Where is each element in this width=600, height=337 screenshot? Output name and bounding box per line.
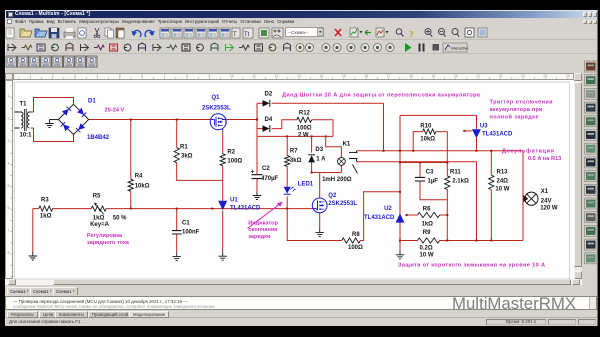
svg-text:24Ω: 24Ω [497, 179, 509, 185]
svg-text:100nF: 100nF [182, 230, 200, 236]
svg-text:D2: D2 [265, 92, 273, 98]
svg-text:R2: R2 [227, 150, 235, 156]
svg-text:10 W: 10 W [495, 187, 509, 193]
svg-text:U3: U3 [480, 124, 488, 130]
svg-text:R9: R9 [423, 230, 431, 236]
svg-text:10kΩ: 10kΩ [135, 184, 150, 190]
svg-text:TL431ACD: TL431ACD [230, 205, 261, 211]
svg-text:100Ω: 100Ω [297, 125, 312, 131]
svg-text:10kΩ: 10kΩ [420, 137, 435, 143]
svg-text:TL431ACD: TL431ACD [482, 131, 513, 137]
svg-text:LED1: LED1 [298, 181, 314, 187]
svg-text:K1: K1 [343, 141, 351, 147]
svg-text:Триггер отключения: Триггер отключения [490, 100, 553, 106]
svg-text:1kΩ: 1kΩ [422, 222, 434, 228]
svg-text:R10: R10 [420, 123, 432, 129]
svg-text:R12: R12 [299, 111, 311, 117]
svg-text:D4: D4 [265, 117, 273, 123]
svg-text:C1: C1 [182, 221, 190, 227]
svg-text:Key=A: Key=A [90, 222, 110, 228]
svg-text:Регулировка: Регулировка [87, 233, 123, 239]
svg-text:1kΩ: 1kΩ [40, 213, 52, 219]
svg-text:3kΩ: 3kΩ [181, 154, 193, 160]
svg-text:Индикатор: Индикатор [248, 220, 278, 226]
svg-text:470µF: 470µF [261, 176, 278, 182]
svg-text:X1: X1 [541, 189, 549, 195]
svg-text:Защита от короткого замыкания: Защита от короткого замыкания на уровне … [398, 263, 545, 269]
svg-text:R13: R13 [497, 170, 509, 176]
svg-text:R6: R6 [423, 207, 431, 213]
svg-text:1mH 200Ω: 1mH 200Ω [322, 177, 352, 183]
svg-text:3kΩ: 3kΩ [290, 158, 302, 164]
svg-text:100Ω: 100Ω [227, 159, 242, 165]
svg-text:10:1: 10:1 [20, 133, 33, 139]
svg-text:D3: D3 [315, 147, 323, 153]
svg-text:Диод Шоттки 20 А для защиты от: Диод Шоттки 20 А для защиты от переполюс… [282, 92, 481, 98]
svg-text:1 A: 1 A [316, 157, 326, 163]
svg-text:2 W: 2 W [298, 132, 309, 138]
svg-text:50 %: 50 % [113, 215, 127, 221]
svg-text:R4: R4 [135, 173, 143, 179]
svg-text:10 W: 10 W [420, 253, 434, 259]
svg-text:C2: C2 [262, 166, 270, 172]
svg-text:аккумулятора при: аккумулятора при [490, 107, 544, 113]
svg-text:R1: R1 [180, 144, 188, 150]
svg-text:2SK2553L: 2SK2553L [328, 201, 357, 207]
svg-text:C3: C3 [426, 170, 434, 176]
svg-text:100Ω: 100Ω [348, 245, 363, 251]
svg-text:зарядки: зарядки [248, 234, 271, 240]
svg-text:окончания: окончания [248, 227, 277, 233]
svg-text:R7: R7 [290, 149, 298, 155]
svg-text:120 W: 120 W [540, 206, 558, 212]
svg-text:R8: R8 [352, 232, 360, 238]
svg-text:R3: R3 [41, 198, 49, 204]
svg-text:0.2Ω: 0.2Ω [420, 246, 433, 252]
svg-text:2SK2553L: 2SK2553L [202, 106, 231, 112]
svg-text:U2: U2 [384, 206, 392, 212]
svg-text:R11: R11 [450, 170, 461, 176]
svg-text:D1: D1 [88, 99, 96, 105]
svg-text:Q2: Q2 [328, 193, 337, 199]
svg-text:2.1kΩ: 2.1kΩ [452, 179, 469, 185]
svg-text:T1: T1 [20, 101, 28, 107]
svg-text:TL431ACD: TL431ACD [364, 215, 395, 221]
svg-text:U1: U1 [230, 198, 238, 204]
svg-text:24V: 24V [541, 199, 552, 205]
svg-text:R5: R5 [93, 194, 101, 200]
svg-text:1kΩ: 1kΩ [93, 215, 105, 221]
svg-text:20-24 V: 20-24 V [105, 108, 125, 114]
svg-text:полной зарядке: полной зарядке [490, 114, 539, 121]
svg-text:0.5 А на R13: 0.5 А на R13 [528, 156, 561, 162]
svg-text:1B4B42: 1B4B42 [87, 135, 110, 141]
svg-text:Десульфатация: Десульфатация [502, 147, 554, 154]
svg-text:зарядного тока: зарядного тока [87, 240, 130, 246]
svg-text:Q1: Q1 [212, 95, 221, 101]
svg-text:1µF: 1µF [428, 179, 439, 185]
